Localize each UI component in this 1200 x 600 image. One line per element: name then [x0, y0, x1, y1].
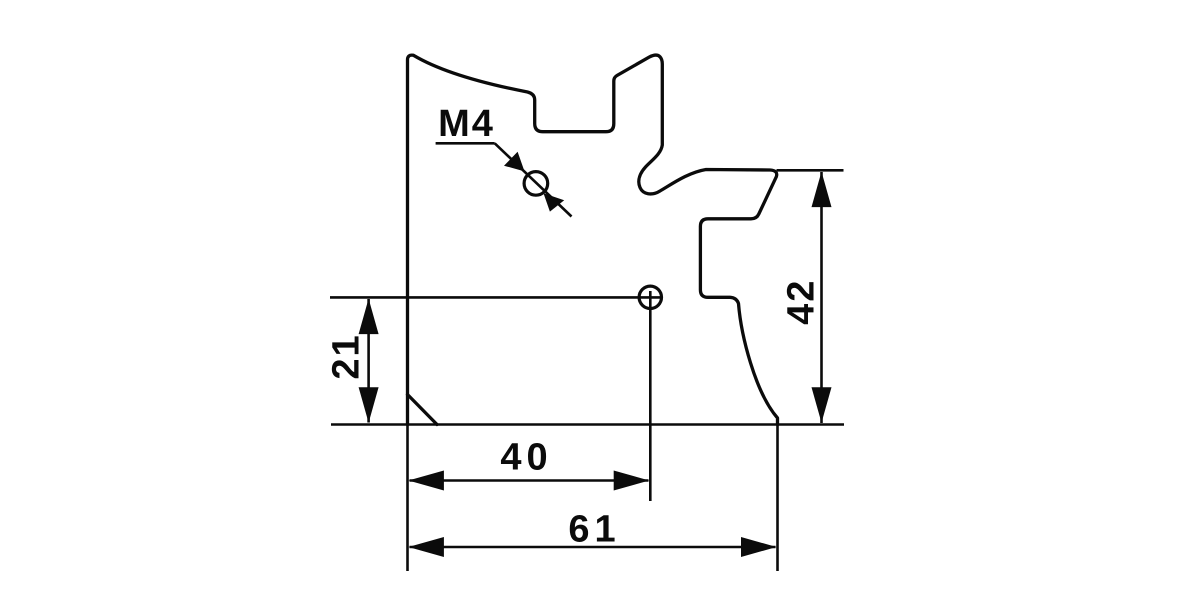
arrowhead M4 leader (down-right at 45deg): [504, 152, 525, 172]
centerline horizontal through hole: [330, 296, 661, 299]
arrowhead 21 up: [359, 299, 379, 335]
arrowhead 42 up: [812, 172, 832, 208]
hole circle (cross-circle at 40/21 position): [639, 286, 661, 308]
svg-text:61: 61: [568, 509, 620, 551]
svg-text:42: 42: [781, 279, 823, 325]
M4 thread circle: [524, 172, 548, 196]
arrowhead 21 down: [359, 387, 379, 423]
svg-text:40: 40: [500, 437, 552, 479]
baseline datum: [331, 423, 844, 426]
dim line 61: [410, 546, 776, 549]
svg-text:M4: M4: [438, 103, 495, 145]
dim line 21: [367, 299, 370, 423]
left extension line below baseline: [406, 425, 409, 572]
dim line 42: [820, 172, 823, 423]
M4 leader shoulder: [436, 142, 495, 145]
arrowhead 61 right: [741, 537, 777, 557]
right extension line below baseline: [776, 425, 779, 572]
svg-text:21: 21: [326, 333, 368, 379]
M4 leader diagonal and slash through circle: [495, 143, 572, 216]
arrowhead 42 down: [812, 387, 832, 423]
arrowhead 40 right: [614, 471, 650, 491]
top-right extension line for 42: [777, 169, 844, 172]
part outline: [408, 55, 778, 424]
chamfer bottom-left: [408, 395, 438, 425]
arrowhead 61 left: [408, 537, 444, 557]
hole vertical extension line: [649, 291, 652, 501]
arrowhead 40 left: [408, 471, 444, 491]
dim line 40: [410, 479, 649, 482]
arrowhead M4 opposite (up-left at 45deg): [544, 193, 565, 211]
